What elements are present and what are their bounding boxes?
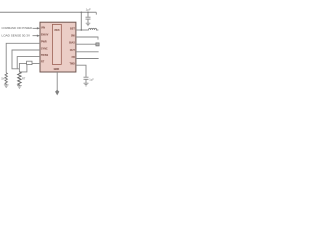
component box at BIAS wire end: [96, 43, 99, 46]
wire vertical rail to SW wire: [80, 12, 82, 30]
svg-text:BST: BST: [70, 27, 75, 30]
IC U1 inner box: [52, 24, 61, 64]
capacitor C3 output: [84, 77, 89, 83]
ground under C1: [86, 23, 91, 26]
svg-text:RT: RT: [22, 78, 26, 81]
wire SW pin: [76, 36, 98, 38]
ground arrow under IC: [55, 90, 59, 96]
node junction rail to BST vertical: [81, 12, 83, 14]
svg-text:GND: GND: [54, 68, 60, 71]
svg-text:1µF: 1µF: [86, 8, 91, 12]
svg-text:OUT: OUT: [70, 49, 76, 52]
svg-text:COMMAND OR POWER: COMMAND OR POWER: [2, 26, 33, 30]
wire BST pin: [76, 29, 89, 31]
arrow into VIN pin: [33, 27, 40, 29]
capacitor C1 top right: [86, 12, 91, 23]
resistor R2 bottom left zigzag: [18, 72, 21, 85]
svg-text:PWR: PWR: [41, 41, 47, 44]
svg-text:1M: 1M: [1, 77, 4, 80]
svg-text:1µF: 1µF: [89, 77, 94, 81]
node junction rail to input cap: [87, 12, 89, 14]
wire PG pin left loop: [6, 43, 40, 73]
node junction BST wire: [81, 29, 83, 31]
resistor R1 bottom left zigzag: [5, 73, 7, 85]
wire TR/SS pin left loop: [17, 57, 40, 69]
wire VIN top rail: [0, 11, 96, 13]
wire OUT pin: [76, 51, 99, 53]
wire rail end tick: [95, 12, 97, 14]
wire after inductor: [96, 29, 98, 31]
wire FB pin: [76, 58, 99, 60]
ground under R1: [4, 85, 9, 88]
wire RT pin with loop box: [19, 63, 40, 72]
wire SW end tick: [97, 37, 99, 40]
component box C2 on RT wire: [27, 61, 32, 64]
ground under C3: [84, 83, 89, 86]
wire SYNC pin left loop: [12, 50, 40, 69]
svg-text:LT8645S: LT8645S: [54, 29, 60, 32]
svg-text:EN/UV: EN/UV: [41, 33, 49, 36]
svg-text:TR/SS: TR/SS: [41, 54, 48, 57]
wire GND pin down: [56, 72, 58, 92]
svg-text:BIAS: BIAS: [69, 42, 75, 45]
arrow into EN pin: [33, 35, 40, 37]
inductor L1: [89, 28, 97, 30]
ground under R2: [17, 86, 22, 89]
svg-text:LOAD SENSE 50.3V: LOAD SENSE 50.3V: [2, 33, 31, 37]
svg-text:VIN: VIN: [41, 26, 45, 29]
svg-text:TMO: TMO: [69, 63, 74, 66]
svg-text:SYNC: SYNC: [41, 47, 48, 50]
wire BIAS pin: [76, 43, 96, 45]
svg-text:RT: RT: [41, 61, 45, 64]
IC U1 body: [40, 22, 76, 72]
wire PGND pin to output cap: [76, 65, 86, 77]
svg-text:FB: FB: [72, 56, 75, 59]
